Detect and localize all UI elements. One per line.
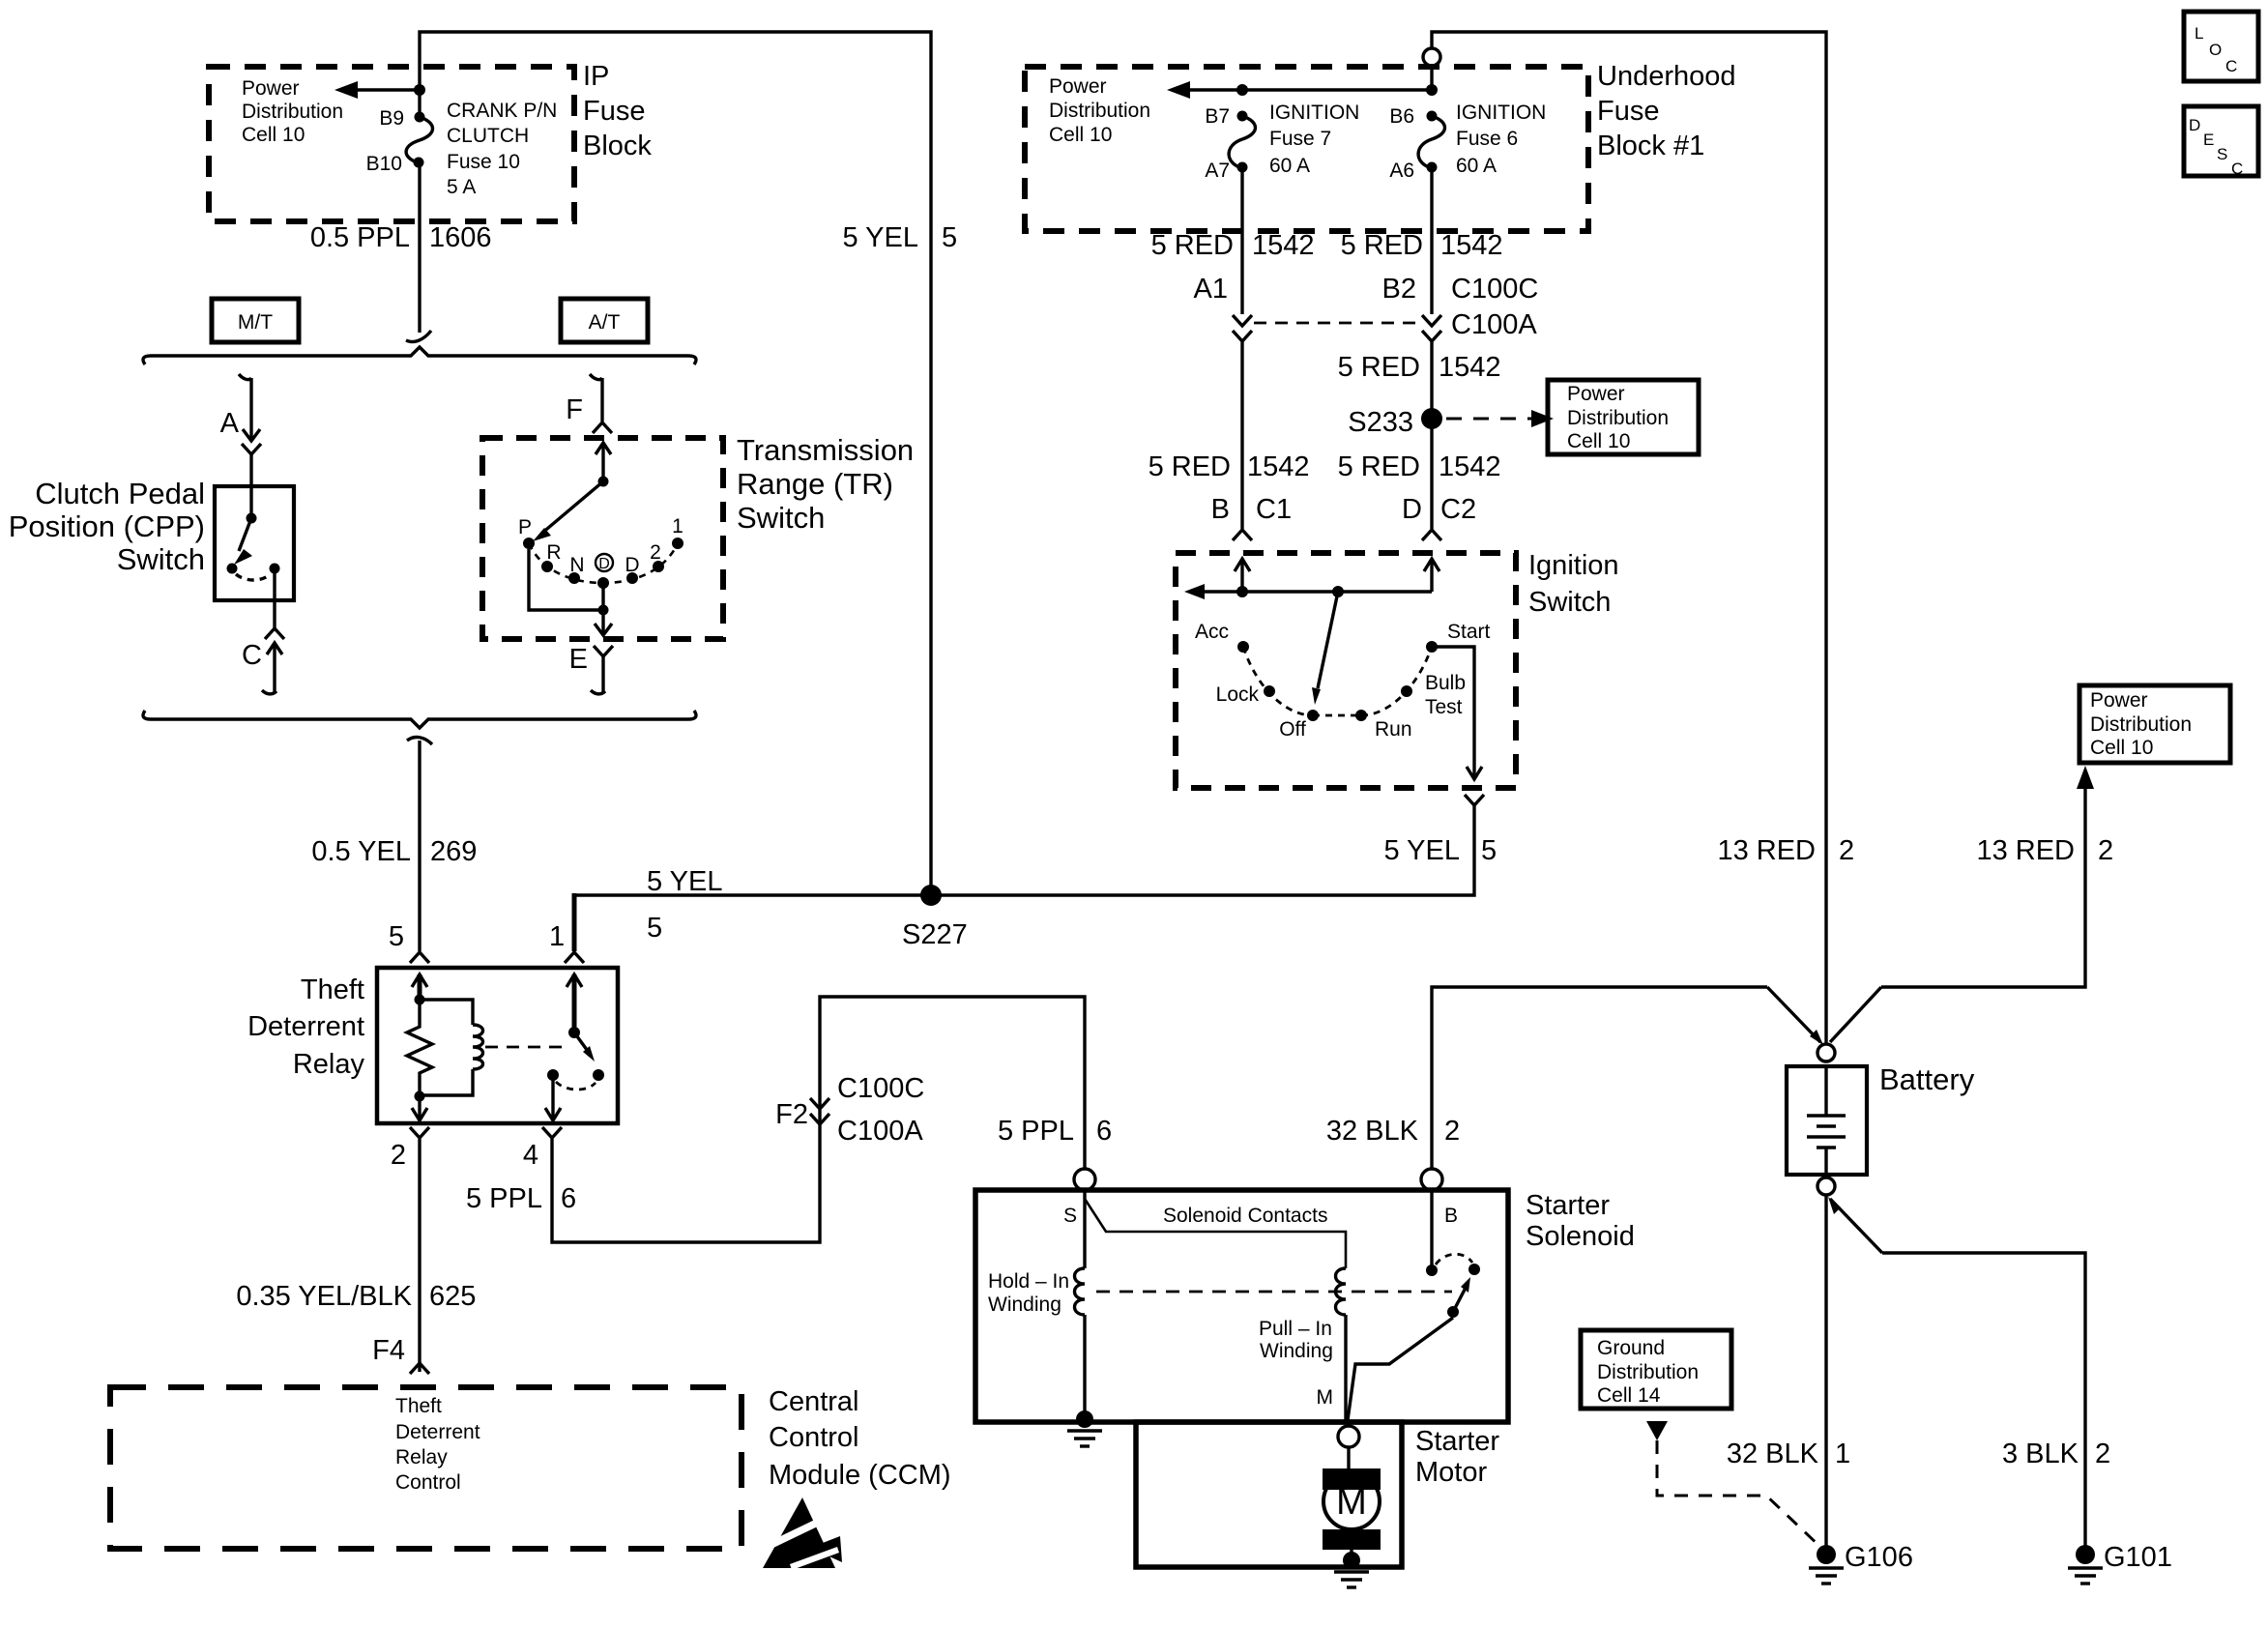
- wire labels 5 RED 1542 (row 3): [1149, 451, 1501, 482]
- svg-text:Theft: Theft: [301, 974, 364, 1005]
- svg-text:Switch: Switch: [1528, 587, 1611, 618]
- svg-text:0.5 YEL: 0.5 YEL: [311, 836, 411, 867]
- wire label 0.5 YEL 269: [311, 836, 477, 867]
- label: Underhood Fuse Block #1: [1597, 61, 1736, 161]
- label: Power Distribution Cell 10 (IP block): [242, 77, 343, 146]
- svg-text:1542: 1542: [1252, 230, 1315, 261]
- label: Theft Deterrent Relay: [247, 974, 364, 1080]
- fuse F10 CRANK P/N CLUTCH (B9-B10): [406, 112, 432, 168]
- svg-text:Clutch Pedal: Clutch Pedal: [35, 477, 205, 510]
- svg-text:4: 4: [523, 1140, 538, 1171]
- svg-text:2: 2: [2095, 1439, 2110, 1469]
- svg-text:Range (TR): Range (TR): [737, 467, 893, 501]
- svg-text:Pull – In: Pull – In: [1259, 1318, 1332, 1340]
- svg-text:Transmission: Transmission: [737, 433, 914, 467]
- svg-text:G101: G101: [2104, 1542, 2172, 1573]
- relay pin 2 internal arrow: [412, 1096, 427, 1120]
- svg-text:Starter: Starter: [1526, 1190, 1610, 1221]
- svg-text:Power: Power: [2090, 689, 2148, 712]
- svg-text:C100A: C100A: [1451, 309, 1537, 340]
- svg-text:M: M: [1336, 1482, 1367, 1523]
- svg-text:Battery: Battery: [1879, 1062, 1975, 1096]
- svg-text:32 BLK: 32 BLK: [1727, 1439, 1819, 1469]
- Power Distribution Cell 10 box (S233): [1548, 380, 1699, 454]
- svg-text:Block: Block: [583, 131, 652, 161]
- relay pin 1 internal arrow (thick): [567, 974, 582, 1032]
- svg-text:Fuse 7: Fuse 7: [1269, 128, 1331, 150]
- svg-text:G106: G106: [1845, 1542, 1913, 1573]
- svg-text:B2: B2: [1382, 274, 1416, 305]
- solenoid internal ground: [1067, 1410, 1102, 1446]
- TR position labels: [518, 515, 683, 576]
- svg-text:A7: A7: [1205, 160, 1230, 182]
- svg-text:B: B: [1444, 1205, 1458, 1227]
- battery top terminal ring: [1817, 1044, 1835, 1061]
- svg-text:Position (CPP): Position (CPP): [9, 509, 205, 543]
- label: Pull-In Winding: [1259, 1318, 1333, 1362]
- svg-text:3 BLK: 3 BLK: [2002, 1439, 2079, 1469]
- svg-text:0.5 PPL: 0.5 PPL: [310, 222, 410, 253]
- svg-text:1: 1: [672, 515, 683, 538]
- Ignition Switch dashed box: [1176, 553, 1516, 788]
- node S233 with dashed arrow to Power Distribution: [1348, 407, 1554, 438]
- svg-text:2: 2: [391, 1140, 406, 1171]
- svg-text:Starter: Starter: [1415, 1426, 1499, 1457]
- svg-text:1606: 1606: [429, 222, 492, 253]
- svg-text:Ground: Ground: [1597, 1337, 1665, 1359]
- ESD sensitive symbol: [763, 1497, 842, 1570]
- label: Transmission Range (TR) Switch: [737, 433, 914, 535]
- wire label 5 PPL 6 (lower): [466, 1183, 576, 1214]
- svg-text:F2: F2: [775, 1099, 808, 1130]
- dashed ground reference link: [1646, 1421, 1821, 1548]
- connector F2 C100C/C100A (double chevron): [775, 1073, 924, 1147]
- TR output wiring P and D to E: [529, 549, 612, 635]
- solenoid contact B side: [1426, 1190, 1438, 1276]
- svg-text:32 BLK: 32 BLK: [1326, 1116, 1419, 1147]
- fuse 7 IGNITION 60A (B7-A7): [1229, 111, 1255, 173]
- svg-text:N: N: [569, 554, 584, 576]
- svg-text:C2: C2: [1440, 494, 1476, 525]
- svg-text:Bulb: Bulb: [1425, 672, 1466, 694]
- svg-text:D: D: [2189, 116, 2200, 134]
- svg-text:Acc: Acc: [1195, 621, 1229, 643]
- motor M terminal ring: [1338, 1426, 1359, 1471]
- svg-text:Control: Control: [395, 1471, 461, 1494]
- svg-text:5 YEL: 5 YEL: [843, 222, 918, 253]
- svg-text:B9: B9: [379, 107, 404, 130]
- pin S: [1063, 1205, 1077, 1227]
- label: IGNITION Fuse 6 60 A: [1456, 102, 1546, 177]
- connector C (chevron + arrow): [242, 628, 284, 692]
- solenoid moving contact with arrow: [1348, 1264, 1480, 1420]
- svg-text:269: 269: [430, 836, 477, 867]
- connector A (arrow + chevron): [220, 408, 261, 454]
- motor symbol: [1323, 1468, 1381, 1555]
- wire label 13 RED 2 (right branch): [1976, 835, 2113, 866]
- svg-text:CRANK P/N: CRANK P/N: [447, 100, 557, 122]
- relay pin 5 chevron: [389, 921, 429, 963]
- svg-text:CLUTCH: CLUTCH: [447, 125, 529, 147]
- pin M: [1317, 1386, 1334, 1409]
- winding link dashed: [1096, 1291, 1452, 1294]
- svg-text:O: O: [2209, 41, 2222, 59]
- svg-text:M/T: M/T: [238, 311, 273, 334]
- IP fuse block (dashed box): [209, 67, 574, 221]
- svg-text:Relay: Relay: [293, 1049, 365, 1080]
- svg-text:60 A: 60 A: [1269, 155, 1310, 177]
- wire: 0.35 YEL/BLK 625 to CCM F4: [418, 1139, 421, 1372]
- svg-text:D: D: [625, 554, 639, 576]
- wire: 5 RED 1542 right (A6 to B2): [1430, 167, 1433, 314]
- svg-text:5 RED: 5 RED: [1341, 230, 1423, 261]
- break at top of F branch: [590, 374, 602, 380]
- svg-text:Power: Power: [242, 77, 300, 100]
- svg-text:5 YEL: 5 YEL: [1384, 835, 1460, 866]
- svg-text:E: E: [569, 644, 588, 675]
- M/T tag box: [212, 299, 299, 342]
- svg-text:B7: B7: [1205, 105, 1230, 128]
- pin B7: [1205, 105, 1230, 128]
- svg-text:Switch: Switch: [117, 542, 205, 576]
- svg-text:Underhood: Underhood: [1597, 61, 1736, 92]
- TR detent dots P R N D D 2 1: [523, 538, 683, 589]
- svg-text:IGNITION: IGNITION: [1269, 102, 1359, 124]
- svg-text:1542: 1542: [1440, 230, 1503, 261]
- svg-text:Power: Power: [1567, 383, 1625, 405]
- wire label 32 BLK 2: [1326, 1116, 1460, 1147]
- svg-text:Motor: Motor: [1415, 1457, 1487, 1488]
- ignition detent dashed arc: [1243, 647, 1432, 715]
- relay resistor: [407, 1000, 432, 1096]
- svg-text:Cell 14: Cell 14: [1597, 1384, 1661, 1407]
- svg-text:Fuse: Fuse: [583, 96, 645, 127]
- svg-text:Cell 10: Cell 10: [1049, 124, 1112, 146]
- svg-text:5 RED: 5 RED: [1151, 230, 1234, 261]
- connector E (chevron): [569, 644, 613, 692]
- svg-text:Ignition: Ignition: [1528, 550, 1619, 581]
- svg-text:F: F: [566, 394, 583, 425]
- Underhood fuse block dashed box: [1025, 67, 1588, 231]
- relay coil: [420, 1000, 483, 1095]
- pull-in winding: [1336, 1268, 1347, 1422]
- TR input arrow and wiper: [533, 443, 611, 541]
- ignition position labels: [1195, 621, 1491, 741]
- CPP switch box: [215, 486, 294, 600]
- Central Control Module dashed box: [110, 1387, 741, 1549]
- svg-text:C: C: [2231, 160, 2243, 178]
- brace (top, M/T A/T split): [143, 347, 696, 364]
- svg-text:Cell 10: Cell 10: [2090, 737, 2153, 759]
- svg-text:F4: F4: [372, 1335, 405, 1366]
- svg-text:C: C: [242, 640, 262, 671]
- svg-text:1: 1: [549, 921, 565, 952]
- pin A6: [1389, 160, 1414, 182]
- svg-text:1: 1: [1835, 1439, 1850, 1469]
- dashed C100 bulkhead line: [1254, 322, 1420, 325]
- svg-text:5: 5: [647, 913, 662, 944]
- relay coil-to-contact dashed link: [485, 1046, 568, 1049]
- wire label 5 YEL 5 (ignition output): [1384, 835, 1497, 866]
- svg-text:13 RED: 13 RED: [1717, 835, 1816, 866]
- svg-text:IP: IP: [583, 61, 609, 92]
- relay pin 4 internal arrow: [545, 1075, 561, 1120]
- A/T tag box: [561, 299, 648, 342]
- svg-text:Distribution: Distribution: [1567, 407, 1669, 429]
- svg-text:Theft: Theft: [395, 1395, 442, 1417]
- svg-text:P: P: [518, 516, 532, 538]
- solenoid S terminal ring: [1074, 1169, 1095, 1190]
- relay pin 2 chevron: [391, 1127, 429, 1171]
- LOC tab: [2184, 12, 2258, 81]
- label: Central Control Module (CCM): [769, 1386, 951, 1491]
- svg-text:Central: Central: [769, 1386, 859, 1417]
- wire: top bus from IP fuse block to 5 YEL drop: [420, 32, 931, 895]
- svg-text:5 RED: 5 RED: [1338, 352, 1420, 383]
- label: Hold-In Winding: [988, 1270, 1069, 1316]
- wire label 5 PPL 6 (at solenoid): [998, 1116, 1112, 1147]
- relay pin 5 internal arrow: [412, 974, 427, 1000]
- wire: left 5 RED to ignition B: [1240, 341, 1243, 529]
- battery bottom terminal ring: [1817, 1177, 1835, 1195]
- svg-text:Cell 10: Cell 10: [1567, 430, 1630, 452]
- svg-text:S: S: [2217, 145, 2227, 163]
- Ground Distribution Cell 14 box: [1581, 1330, 1731, 1409]
- connector C100 B2 (double chevron): [1382, 274, 1539, 341]
- svg-text:Cell 10: Cell 10: [242, 124, 305, 146]
- brace (bottom, rejoin): [143, 711, 696, 728]
- svg-text:B10: B10: [366, 153, 402, 175]
- battery cell plates: [1807, 1066, 1846, 1175]
- label: Theft Deterrent Relay Control: [395, 1395, 480, 1494]
- wire label 5 RED 1542 (row 2): [1338, 352, 1501, 383]
- ground G101: [2068, 1542, 2172, 1584]
- Power Distribution Cell 10 box (right): [2079, 685, 2230, 763]
- svg-text:B: B: [1211, 494, 1230, 525]
- node S227: [902, 885, 968, 950]
- svg-text:6: 6: [1096, 1116, 1112, 1147]
- svg-text:0.35 YEL/BLK: 0.35 YEL/BLK: [236, 1281, 412, 1312]
- connector below ignition (chevron): [1465, 795, 1484, 805]
- label: Power Distribution Cell 10 (UH block): [1049, 75, 1150, 146]
- connector D/C2 (chevron): [1402, 494, 1476, 540]
- svg-text:13 RED: 13 RED: [1976, 835, 2075, 866]
- pin B10: [366, 153, 402, 175]
- svg-text:5 RED: 5 RED: [1149, 451, 1231, 482]
- svg-text:2: 2: [1444, 1116, 1460, 1147]
- svg-text:6: 6: [561, 1183, 576, 1214]
- svg-text:5: 5: [942, 222, 957, 253]
- wire label 32 BLK 1: [1727, 1439, 1850, 1469]
- svg-text:C1: C1: [1256, 494, 1292, 525]
- pin A7: [1205, 160, 1230, 182]
- svg-text:D: D: [1402, 494, 1422, 525]
- svg-text:C100C: C100C: [837, 1073, 924, 1104]
- ignition detent dots: [1237, 641, 1438, 721]
- svg-text:5 RED: 5 RED: [1338, 451, 1420, 482]
- svg-text:Deterrent: Deterrent: [395, 1421, 480, 1443]
- wire label 3 BLK 2: [2002, 1439, 2110, 1469]
- svg-text:Fuse: Fuse: [1597, 96, 1659, 127]
- label: Solenoid Contacts with leader: [1085, 1199, 1346, 1268]
- TR detent dashed arc: [529, 543, 678, 583]
- svg-text:Fuse 6: Fuse 6: [1456, 128, 1518, 150]
- wire: 0.5 PPL 1606 from fuse B10 down to M/T-A/T brace: [418, 162, 421, 333]
- svg-text:S227: S227: [902, 919, 968, 950]
- DESC tab: [2184, 106, 2258, 178]
- relay coil bottom node: [415, 1091, 425, 1102]
- CPP switch contacts and arm: [227, 513, 280, 581]
- svg-text:1542: 1542: [1439, 451, 1501, 482]
- wire into CPP switch: [249, 454, 252, 518]
- label: CRANK P/N CLUTCH Fuse 10 5 A: [447, 100, 557, 198]
- wire: 5 RED 1542 left (A7 to A1): [1240, 167, 1243, 314]
- svg-text:Run: Run: [1375, 718, 1412, 741]
- svg-text:Distribution: Distribution: [1597, 1361, 1699, 1383]
- svg-text:5 PPL: 5 PPL: [998, 1116, 1074, 1147]
- svg-text:Distribution: Distribution: [1049, 100, 1150, 122]
- svg-text:Switch: Switch: [737, 501, 825, 535]
- wire: right 13 RED branch to battery: [1830, 766, 2094, 1042]
- wire label 5 YEL 5 (top): [843, 222, 958, 253]
- svg-text:A1: A1: [1194, 274, 1228, 305]
- connector B/C1 (chevron): [1211, 494, 1292, 540]
- wire: battery feed bus with connector ring: [1423, 32, 1826, 1044]
- svg-text:Solenoid: Solenoid: [1526, 1221, 1635, 1252]
- wire: 0.5 YEL 269 down to relay pin 5: [418, 741, 421, 951]
- svg-text:Test: Test: [1425, 696, 1463, 718]
- connector F (chevron): [566, 394, 612, 433]
- label: IGNITION Fuse 7 60 A: [1269, 102, 1359, 177]
- label: Clutch Pedal Position (CPP) Switch: [9, 477, 205, 576]
- hold-in winding: [1075, 1190, 1086, 1416]
- svg-text:Module (CCM): Module (CCM): [769, 1460, 951, 1491]
- pin B6: [1389, 105, 1414, 128]
- svg-text:B6: B6: [1389, 105, 1414, 128]
- svg-text:Hold – In: Hold – In: [988, 1270, 1069, 1293]
- svg-text:5 A: 5 A: [447, 176, 476, 198]
- svg-text:5 YEL: 5 YEL: [647, 866, 722, 897]
- svg-text:L: L: [2195, 24, 2203, 43]
- label: Starter Motor: [1415, 1426, 1499, 1488]
- svg-text:Control: Control: [769, 1422, 859, 1453]
- wire: CPP output C: [273, 568, 276, 628]
- svg-text:5 PPL: 5 PPL: [466, 1183, 542, 1214]
- svg-text:Solenoid Contacts: Solenoid Contacts: [1163, 1205, 1327, 1227]
- Battery box: [1787, 1062, 1975, 1175]
- svg-text:IGNITION: IGNITION: [1456, 102, 1546, 124]
- svg-text:C: C: [2225, 57, 2237, 75]
- break at bottom of C branch: [262, 690, 276, 694]
- connector C100 A1 (double chevron): [1194, 274, 1252, 341]
- svg-text:Fuse 10: Fuse 10: [447, 151, 520, 173]
- svg-text:S233: S233: [1348, 407, 1413, 438]
- svg-text:Winding: Winding: [988, 1294, 1061, 1316]
- wire: A branch down to CPP: [249, 378, 252, 431]
- svg-text:M: M: [1317, 1386, 1334, 1409]
- wire: arrow to Power Distribution (UH block): [1167, 81, 1438, 99]
- break at bottom of E branch: [591, 690, 605, 694]
- wire label 5 YEL 5 (at S227): [647, 866, 722, 944]
- wire: battery negative down to G106: [1824, 1195, 1827, 1547]
- wire: right 5 RED to ignition D: [1430, 341, 1433, 529]
- svg-text:Distribution: Distribution: [242, 101, 343, 123]
- break symbol on 0.5 PPL wire: [406, 331, 431, 342]
- motor ground: [1334, 1552, 1369, 1587]
- ignition input arrows B and D: [1235, 559, 1439, 592]
- ignition wiper arrow: [1312, 592, 1338, 705]
- wire: arrow to Power Distribution Cell 10: [334, 81, 425, 99]
- svg-text:Distribution: Distribution: [2090, 713, 2192, 736]
- svg-text:Winding: Winding: [1260, 1340, 1333, 1362]
- svg-text:Power: Power: [1049, 75, 1107, 98]
- svg-text:5: 5: [389, 921, 404, 952]
- svg-text:C100A: C100A: [837, 1116, 923, 1147]
- wire: 5 PPL 6 from relay pin 4 via F2 C100 to solenoid S: [552, 997, 1085, 1242]
- svg-text:C100C: C100C: [1451, 274, 1538, 305]
- wire label 0.35 YEL/BLK 625: [236, 1281, 476, 1312]
- svg-text:A/T: A/T: [589, 311, 621, 334]
- svg-text:A6: A6: [1389, 160, 1414, 182]
- relay contacts: [547, 1069, 604, 1090]
- wire: 5 YEL branch from relay pin 1 to S227 and ignition switch: [574, 805, 1474, 951]
- svg-text:S: S: [1063, 1205, 1077, 1227]
- wire labels 5 RED 1542 (row 1): [1151, 230, 1503, 261]
- circled D indicator: [596, 554, 613, 572]
- svg-text:A: A: [220, 408, 240, 439]
- svg-text:5: 5: [1481, 835, 1497, 866]
- svg-text:Deterrent: Deterrent: [247, 1011, 364, 1042]
- wire label 0.5 PPL 1606: [310, 222, 492, 253]
- wire label 13 RED 2 (battery feed): [1717, 835, 1854, 866]
- wire: battery negative branch to G101: [1828, 1197, 2085, 1547]
- relay pin 1 chevron: [549, 921, 584, 963]
- svg-text:1542: 1542: [1247, 451, 1310, 482]
- Starter Motor box: [1136, 1422, 1402, 1567]
- svg-text:Start: Start: [1447, 621, 1491, 643]
- relay coil top node: [415, 995, 425, 1005]
- break at top of 0.5 YEL wire: [407, 738, 432, 744]
- svg-text:60 A: 60 A: [1456, 155, 1497, 177]
- break at top of A branch: [239, 374, 251, 380]
- Theft Deterrent Relay box: [377, 968, 618, 1123]
- svg-text:R: R: [546, 541, 561, 564]
- solenoid contact dashed arc: [1436, 1254, 1472, 1265]
- svg-text:2: 2: [1839, 835, 1854, 866]
- svg-text:625: 625: [429, 1281, 476, 1312]
- relay pin 4 chevron: [523, 1127, 562, 1171]
- svg-text:Off: Off: [1279, 718, 1306, 741]
- label: Ignition Switch: [1528, 550, 1619, 618]
- solenoid B terminal ring: [1421, 1169, 1442, 1190]
- wire: F branch down to TR switch: [600, 378, 603, 422]
- svg-text:Block #1: Block #1: [1597, 131, 1704, 161]
- svg-text:1542: 1542: [1439, 352, 1501, 383]
- fuse 6 IGNITION 60A (B6-A6): [1418, 111, 1444, 173]
- wire: Start contact to output: [1432, 647, 1482, 779]
- ground G106: [1809, 1542, 1913, 1584]
- svg-text:Lock: Lock: [1216, 683, 1260, 706]
- pin B: [1444, 1205, 1458, 1227]
- connector F4 (chevron): [372, 1335, 429, 1374]
- svg-text:2: 2: [650, 541, 661, 564]
- label: IP Fuse Block: [583, 61, 652, 161]
- Transmission Range switch dashed box: [482, 438, 723, 639]
- svg-text:2: 2: [2098, 835, 2113, 866]
- svg-text:D: D: [598, 556, 610, 572]
- svg-text:Relay: Relay: [395, 1446, 448, 1468]
- ignition bus with left arrow: [1184, 584, 1432, 599]
